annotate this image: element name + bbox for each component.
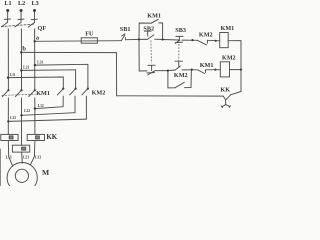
svg-text:L13: L13 xyxy=(6,156,12,160)
svg-text:L22: L22 xyxy=(24,109,30,113)
svg-text:KK: KK xyxy=(46,134,57,141)
svg-text:SB1: SB1 xyxy=(120,26,131,33)
svg-text:KM1: KM1 xyxy=(147,13,161,20)
svg-text:KM2: KM2 xyxy=(92,90,106,97)
svg-text:L32: L32 xyxy=(10,116,16,120)
svg-text:KM1: KM1 xyxy=(200,62,214,69)
svg-text:KK: KK xyxy=(220,86,230,93)
svg-text:L23: L23 xyxy=(23,156,29,160)
svg-text:KM1: KM1 xyxy=(221,25,235,32)
svg-text:L33: L33 xyxy=(35,156,41,160)
svg-text:SB2: SB2 xyxy=(143,25,154,32)
svg-text:L21: L21 xyxy=(23,66,29,70)
svg-text:KM2: KM2 xyxy=(174,72,188,79)
svg-text:L11: L11 xyxy=(10,73,16,77)
svg-text:FU: FU xyxy=(85,30,94,37)
svg-text:L12: L12 xyxy=(38,104,44,108)
svg-text:M: M xyxy=(42,168,49,177)
svg-text:L31: L31 xyxy=(37,61,43,65)
svg-text:L2: L2 xyxy=(18,0,25,7)
svg-text:L3: L3 xyxy=(32,0,39,7)
svg-text:KM2: KM2 xyxy=(222,54,236,61)
svg-text:KM1: KM1 xyxy=(36,90,50,97)
svg-text:KM2: KM2 xyxy=(199,32,213,39)
svg-text:L1: L1 xyxy=(4,0,11,7)
svg-text:b: b xyxy=(22,46,26,53)
svg-text:SB3: SB3 xyxy=(175,27,186,34)
svg-text:QF: QF xyxy=(38,25,47,32)
